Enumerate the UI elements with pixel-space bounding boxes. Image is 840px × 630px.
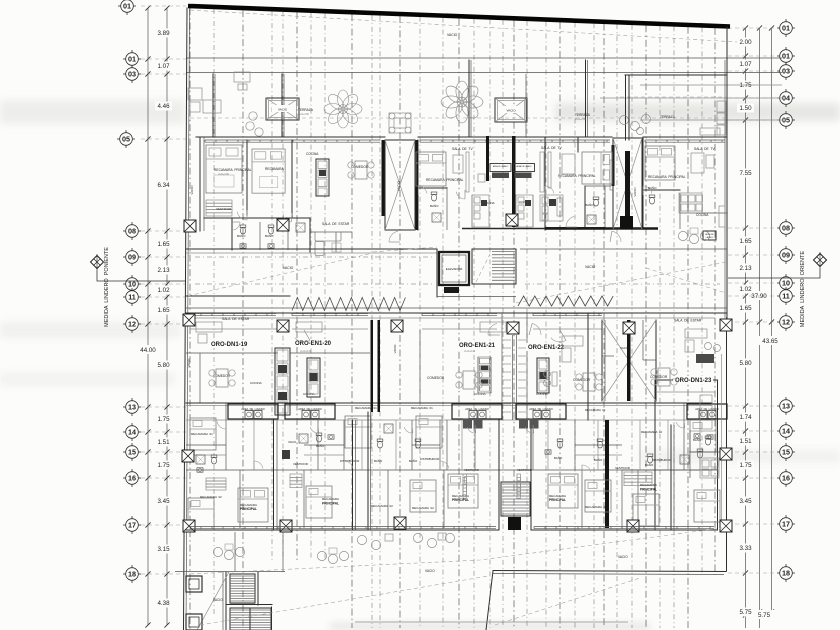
lower bath fixtures: [196, 424, 713, 472]
svg-text:3.89: 3.89: [157, 30, 170, 37]
svg-text:11: 11: [782, 292, 790, 301]
svg-text:37.90: 37.90: [751, 293, 767, 300]
terrace chairs right: [620, 101, 727, 135]
svg-text:09: 09: [782, 251, 790, 260]
svg-text:RECAMARA 01: RECAMARA 01: [191, 432, 213, 436]
svg-text:AREA DE LAVADO: AREA DE LAVADO: [516, 165, 532, 168]
svg-text:1.75: 1.75: [157, 416, 170, 423]
right lindero marker + text: [728, 251, 827, 327]
svg-text:09: 09: [128, 253, 136, 262]
lower kitchens: [307, 357, 712, 429]
balcony chairs clusters: [213, 544, 244, 560]
svg-text:12: 12: [782, 318, 790, 327]
lower dining tables: [209, 369, 235, 387]
terrace unit walls: [213, 60, 727, 140]
svg-text:RECAMARA PRINCIPAL: RECAMARA PRINCIPAL: [648, 175, 686, 179]
svg-text:2.00: 2.00: [739, 39, 752, 46]
svg-text:ORO-EN1-22: ORO-EN1-22: [528, 345, 565, 351]
svg-text:RECAMARA PRINCIPAL: RECAMARA PRINCIPAL: [426, 178, 464, 182]
vacio box 2: [495, 98, 527, 122]
svg-text:PRINCIPAL: PRINCIPAL: [549, 498, 566, 502]
svg-text:ORO-EN1-21: ORO-EN1-21: [459, 343, 496, 349]
left unit closet hatch: [206, 478, 226, 490]
svg-text:BAÑO: BAÑO: [648, 185, 657, 190]
svg-text:COCINA: COCINA: [696, 213, 709, 217]
svg-text:SALA DE TV: SALA DE TV: [541, 146, 562, 150]
lower bottom walls: [186, 527, 717, 531]
svg-text:TERRAZA: TERRAZA: [298, 108, 314, 112]
svg-text:1.65: 1.65: [157, 307, 170, 314]
lower vacio shaft (units 22/23): [601, 320, 603, 401]
svg-text:RECAMARA PRINCIPAL: RECAMARA PRINCIPAL: [558, 174, 596, 178]
svg-text:1.65: 1.65: [157, 241, 170, 248]
corridor dashed rows: [195, 256, 435, 258]
svg-text:1.50: 1.50: [739, 105, 752, 112]
svg-text:1.65: 1.65: [739, 238, 752, 245]
svg-text:04: 04: [782, 94, 790, 103]
upper door arcs: [232, 186, 652, 242]
corridor dashed diagonals: [188, 247, 726, 303]
bath zone partitions: [186, 420, 700, 470]
svg-text:TERRAZA: TERRAZA: [575, 113, 591, 117]
svg-text:VACIO: VACIO: [620, 346, 630, 350]
svg-text:VACIO: VACIO: [190, 185, 194, 195]
svg-text:VESTIDOR: VESTIDOR: [293, 462, 308, 466]
svg-text:ORO-EN1-20: ORO-EN1-20: [295, 341, 332, 347]
svg-text:VACIO: VACIO: [447, 33, 458, 37]
vacio shaft 1 with cross: [385, 140, 415, 230]
svg-text:3.33: 3.33: [739, 545, 752, 552]
upper lavado boxes: [490, 164, 535, 179]
svg-text:∅+N+0.00: ∅+N+0.00: [300, 350, 312, 353]
svg-text:08: 08: [128, 227, 136, 236]
svg-text:1.07: 1.07: [739, 61, 752, 68]
svg-text:VACIO: VACIO: [213, 598, 223, 602]
upper beds: [206, 145, 242, 193]
lower interior walls: [186, 330, 717, 530]
svg-text:2.13: 2.13: [157, 267, 170, 274]
svg-text:01: 01: [782, 24, 790, 33]
svg-text:16: 16: [782, 474, 790, 483]
vacio box 1: [266, 98, 299, 120]
bottom dashed projection diagonals: [190, 528, 722, 625]
svg-text:05: 05: [782, 116, 790, 125]
svg-text:ELEVADOR: ELEVADOR: [446, 267, 463, 271]
svg-text:1.51: 1.51: [157, 439, 170, 446]
svg-text:1.75: 1.75: [739, 462, 752, 469]
svg-text:PRINCIPAL: PRINCIPAL: [240, 507, 257, 511]
svg-text:RECAMARA 01: RECAMARA 01: [411, 406, 433, 410]
svg-text:5.80: 5.80: [739, 360, 752, 367]
svg-text:VESTIDOR: VESTIDOR: [216, 207, 232, 211]
corridor walls: [186, 249, 727, 313]
svg-text:RECAMARA 02: RECAMARA 02: [371, 504, 393, 508]
svg-text:5.80: 5.80: [157, 362, 170, 369]
left grid bubbles: [117, 0, 186, 583]
svg-text:SALA DE ESTAR: SALA DE ESTAR: [674, 319, 702, 323]
upper interior walls: [200, 137, 727, 252]
terrace dashed line: [190, 117, 727, 119]
chairs near right unit: [678, 228, 709, 244]
left lindero marker + text: [90, 247, 186, 327]
svg-text:VACIO: VACIO: [187, 358, 191, 368]
svg-text:AREA DE LAVADO: AREA DE LAVADO: [493, 165, 509, 168]
svg-text:RECAMARA 02: RECAMARA 02: [412, 506, 434, 510]
svg-text:16: 16: [128, 474, 136, 483]
terrace furniture: [234, 72, 411, 133]
svg-text:DISTRIBUIDOR: DISTRIBUIDOR: [420, 457, 439, 461]
svg-text:ORO-DN1-19: ORO-DN1-19: [211, 342, 248, 348]
svg-text:01: 01: [123, 2, 131, 11]
svg-text:VACIO: VACIO: [618, 555, 628, 559]
svg-text:1.75: 1.75: [157, 462, 170, 469]
vacio shaft 2 with cross and black bar: [613, 138, 642, 229]
svg-text:17: 17: [782, 520, 790, 529]
svg-text:RECAMARA 02: RECAMARA 02: [585, 505, 607, 509]
left dimension ruler: [138, 5, 172, 627]
lower room labels: [187, 187, 702, 472]
svg-text:RECAMARA 02: RECAMARA 02: [641, 430, 662, 434]
svg-text:COCINA: COCINA: [250, 381, 262, 385]
svg-text:VACIO: VACIO: [397, 181, 401, 191]
top row horizontal grid lines: [186, 58, 782, 120]
upper apartments top wall: [196, 137, 727, 142]
upper dark wall bars: [382, 136, 615, 230]
svg-text:4.46: 4.46: [157, 103, 170, 110]
svg-text:4.38: 4.38: [157, 600, 170, 607]
svg-text:VACIO: VACIO: [425, 569, 435, 573]
bottom-left columns: [186, 576, 202, 592]
svg-text:1.75: 1.75: [739, 82, 752, 89]
area lavado upper right: [703, 231, 716, 240]
lower beds: [190, 418, 216, 450]
svg-text:2.13: 2.13: [739, 265, 752, 272]
svg-text:1.51: 1.51: [739, 438, 752, 445]
svg-text:03: 03: [782, 67, 790, 76]
lower X columns: [183, 314, 195, 326]
svg-text:∅+N+2.80: ∅+N+2.80: [218, 173, 230, 176]
svg-text:1.65: 1.65: [739, 305, 752, 312]
svg-text:BAÑO: BAÑO: [594, 457, 603, 462]
svg-text:3.15: 3.15: [157, 546, 170, 553]
svg-text:DISTRIBUIDOR: DISTRIBUIDOR: [652, 458, 671, 462]
upper thick partition: [462, 228, 545, 230]
lower door arcs: [217, 323, 685, 474]
svg-text:18: 18: [782, 569, 790, 578]
svg-text:08: 08: [782, 224, 790, 233]
svg-text:1.07: 1.07: [157, 63, 170, 70]
svg-text:SALA DE ESTAR: SALA DE ESTAR: [322, 222, 350, 226]
lower block top walls: [186, 314, 715, 393]
area de lavado boxes: [228, 404, 727, 419]
svg-text:18: 18: [128, 570, 136, 579]
washers below central lavado boxes: [463, 419, 539, 429]
svg-text:RECAMARA PRINCIPAL: RECAMARA PRINCIPAL: [214, 168, 252, 172]
svg-text:RECAMARA 02: RECAMARA 02: [585, 408, 606, 412]
svg-text:44.00: 44.00: [140, 347, 156, 354]
unit20 interior wall pairs: [352, 420, 354, 530]
svg-text:VACIO: VACIO: [288, 440, 296, 444]
vestidor closet hatches: [290, 472, 652, 498]
svg-text:VACIO: VACIO: [283, 266, 294, 270]
bottom faint line: [355, 621, 628, 623]
svg-text:17: 17: [128, 521, 136, 530]
svg-text:PRINCIPAL: PRINCIPAL: [640, 488, 657, 492]
scan smudge bands: [0, 100, 185, 124]
upper kitchens: [316, 159, 725, 227]
svg-text:14: 14: [782, 427, 790, 436]
svg-text:RECAMARA 02: RECAMARA 02: [200, 495, 222, 499]
svg-text:ORO-DN1-23: ORO-DN1-23: [675, 378, 712, 384]
svg-text:11: 11: [128, 293, 136, 302]
svg-text:VACIO: VACIO: [506, 109, 516, 113]
lower living furniture: [196, 322, 721, 363]
svg-text:01: 01: [128, 55, 136, 64]
svg-text:PRINCIPAL: PRINCIPAL: [452, 498, 469, 502]
svg-text:MEDIDA LINDERO ORIENTE: MEDIDA LINDERO ORIENTE: [800, 251, 806, 327]
svg-text:RECAMARA: RECAMARA: [322, 497, 339, 501]
building outer walls: [184, 8, 728, 630]
upper bath fixtures: [240, 192, 655, 248]
lower unit labels: [209, 317, 713, 384]
lower shaft walls dark: [275, 313, 656, 528]
right grid bubbles: [728, 19, 795, 582]
svg-text:RECAMARA: RECAMARA: [640, 483, 657, 487]
upper room labels: [190, 146, 715, 238]
elevator: [437, 249, 516, 297]
svg-text:BAÑO: BAÑO: [430, 203, 439, 208]
svg-text:BAÑO: BAÑO: [585, 202, 594, 207]
upper wardrobes: [206, 152, 613, 216]
svg-text:∅+N+2.80: ∅+N+2.80: [298, 113, 310, 116]
svg-text:BAÑO: BAÑO: [374, 458, 383, 463]
svg-text:TERRAZA: TERRAZA: [660, 115, 676, 119]
svg-text:01: 01: [782, 52, 790, 61]
upper sofas: [315, 232, 341, 256]
bottom-left stair: [175, 532, 285, 630]
vertical structural grid axes: [190, 8, 715, 630]
svg-text:1.02: 1.02: [157, 287, 170, 294]
upper X columns: [506, 214, 518, 226]
terrace circles left: [188, 88, 263, 136]
svg-text:∅+N+0.00: ∅+N+0.00: [464, 350, 476, 353]
svg-text:BAÑO: BAÑO: [409, 458, 418, 463]
faint convergence dashes under top line: [190, 10, 737, 42]
svg-text:PRINCIPAL: PRINCIPAL: [322, 502, 339, 506]
svg-text:5.75: 5.75: [739, 609, 752, 616]
terrace planters: [324, 90, 362, 128]
svg-text:7.55: 7.55: [739, 170, 752, 177]
svg-text:VACIO: VACIO: [585, 265, 596, 269]
svg-text:12: 12: [128, 320, 136, 329]
svg-text:∅+N+2.80: ∅+N+2.80: [575, 118, 587, 121]
unit19/20 divider wall lower: [273, 420, 275, 530]
unit23 beds: [633, 494, 659, 526]
svg-text:43.65: 43.65: [762, 338, 778, 345]
svg-text:COCINA: COCINA: [474, 392, 486, 396]
svg-text:5.75: 5.75: [758, 612, 771, 619]
svg-text:COMEDOR: COMEDOR: [427, 376, 445, 380]
svg-text:SALA DE TV: SALA DE TV: [452, 147, 473, 151]
upper dining table: [348, 161, 374, 179]
svg-text:VESTIDOR: VESTIDOR: [615, 466, 630, 470]
svg-text:RECAMARA 01: RECAMARA 01: [355, 406, 377, 410]
svg-text:VESTIDOR: VESTIDOR: [464, 468, 479, 472]
svg-text:6.34: 6.34: [157, 182, 170, 189]
svg-text:COMEDOR: COMEDOR: [650, 375, 668, 379]
svg-text:3.45: 3.45: [739, 498, 752, 505]
svg-text:BAÑO: BAÑO: [316, 443, 325, 448]
bottom terrace boundary: [486, 571, 726, 630]
svg-text:DISTRIBUIDOR: DISTRIBUIDOR: [340, 459, 359, 463]
corridor stair: [472, 249, 516, 284]
svg-text:05: 05: [122, 135, 130, 144]
svg-text:03: 03: [128, 70, 136, 79]
svg-text:SALA DE ESTAR: SALA DE ESTAR: [222, 317, 250, 321]
right balcony strip: [721, 354, 723, 530]
zigzag void edge: [292, 298, 405, 311]
svg-text:15: 15: [128, 448, 136, 457]
lower bedroom labels: [200, 494, 607, 511]
svg-text:VACIO: VACIO: [393, 344, 397, 354]
top property boundary (thick): [188, 6, 730, 27]
right dimension ruler: [737, 25, 781, 628]
svg-text:14: 14: [128, 428, 136, 437]
svg-text:BAÑO: BAÑO: [554, 455, 563, 460]
svg-text:13: 13: [128, 403, 136, 412]
svg-text:3.45: 3.45: [157, 498, 170, 505]
svg-text:15: 15: [782, 448, 790, 457]
svg-text:RECAMARA: RECAMARA: [265, 167, 284, 171]
svg-text:VESTIDOR: VESTIDOR: [517, 468, 532, 472]
svg-text:VACIO: VACIO: [633, 187, 637, 197]
svg-text:1.74: 1.74: [739, 414, 752, 421]
svg-text:COCINA: COCINA: [306, 152, 319, 156]
svg-text:VACIO: VACIO: [278, 108, 288, 112]
central stair shaft: [499, 313, 531, 530]
unit23 interior detail: [640, 425, 728, 530]
svg-text:10: 10: [782, 279, 790, 288]
svg-text:MEDIDA LINDERO PONIENTE: MEDIDA LINDERO PONIENTE: [104, 247, 110, 327]
svg-text:SALA DE TV: SALA DE TV: [694, 147, 715, 151]
svg-text:13: 13: [782, 402, 790, 411]
